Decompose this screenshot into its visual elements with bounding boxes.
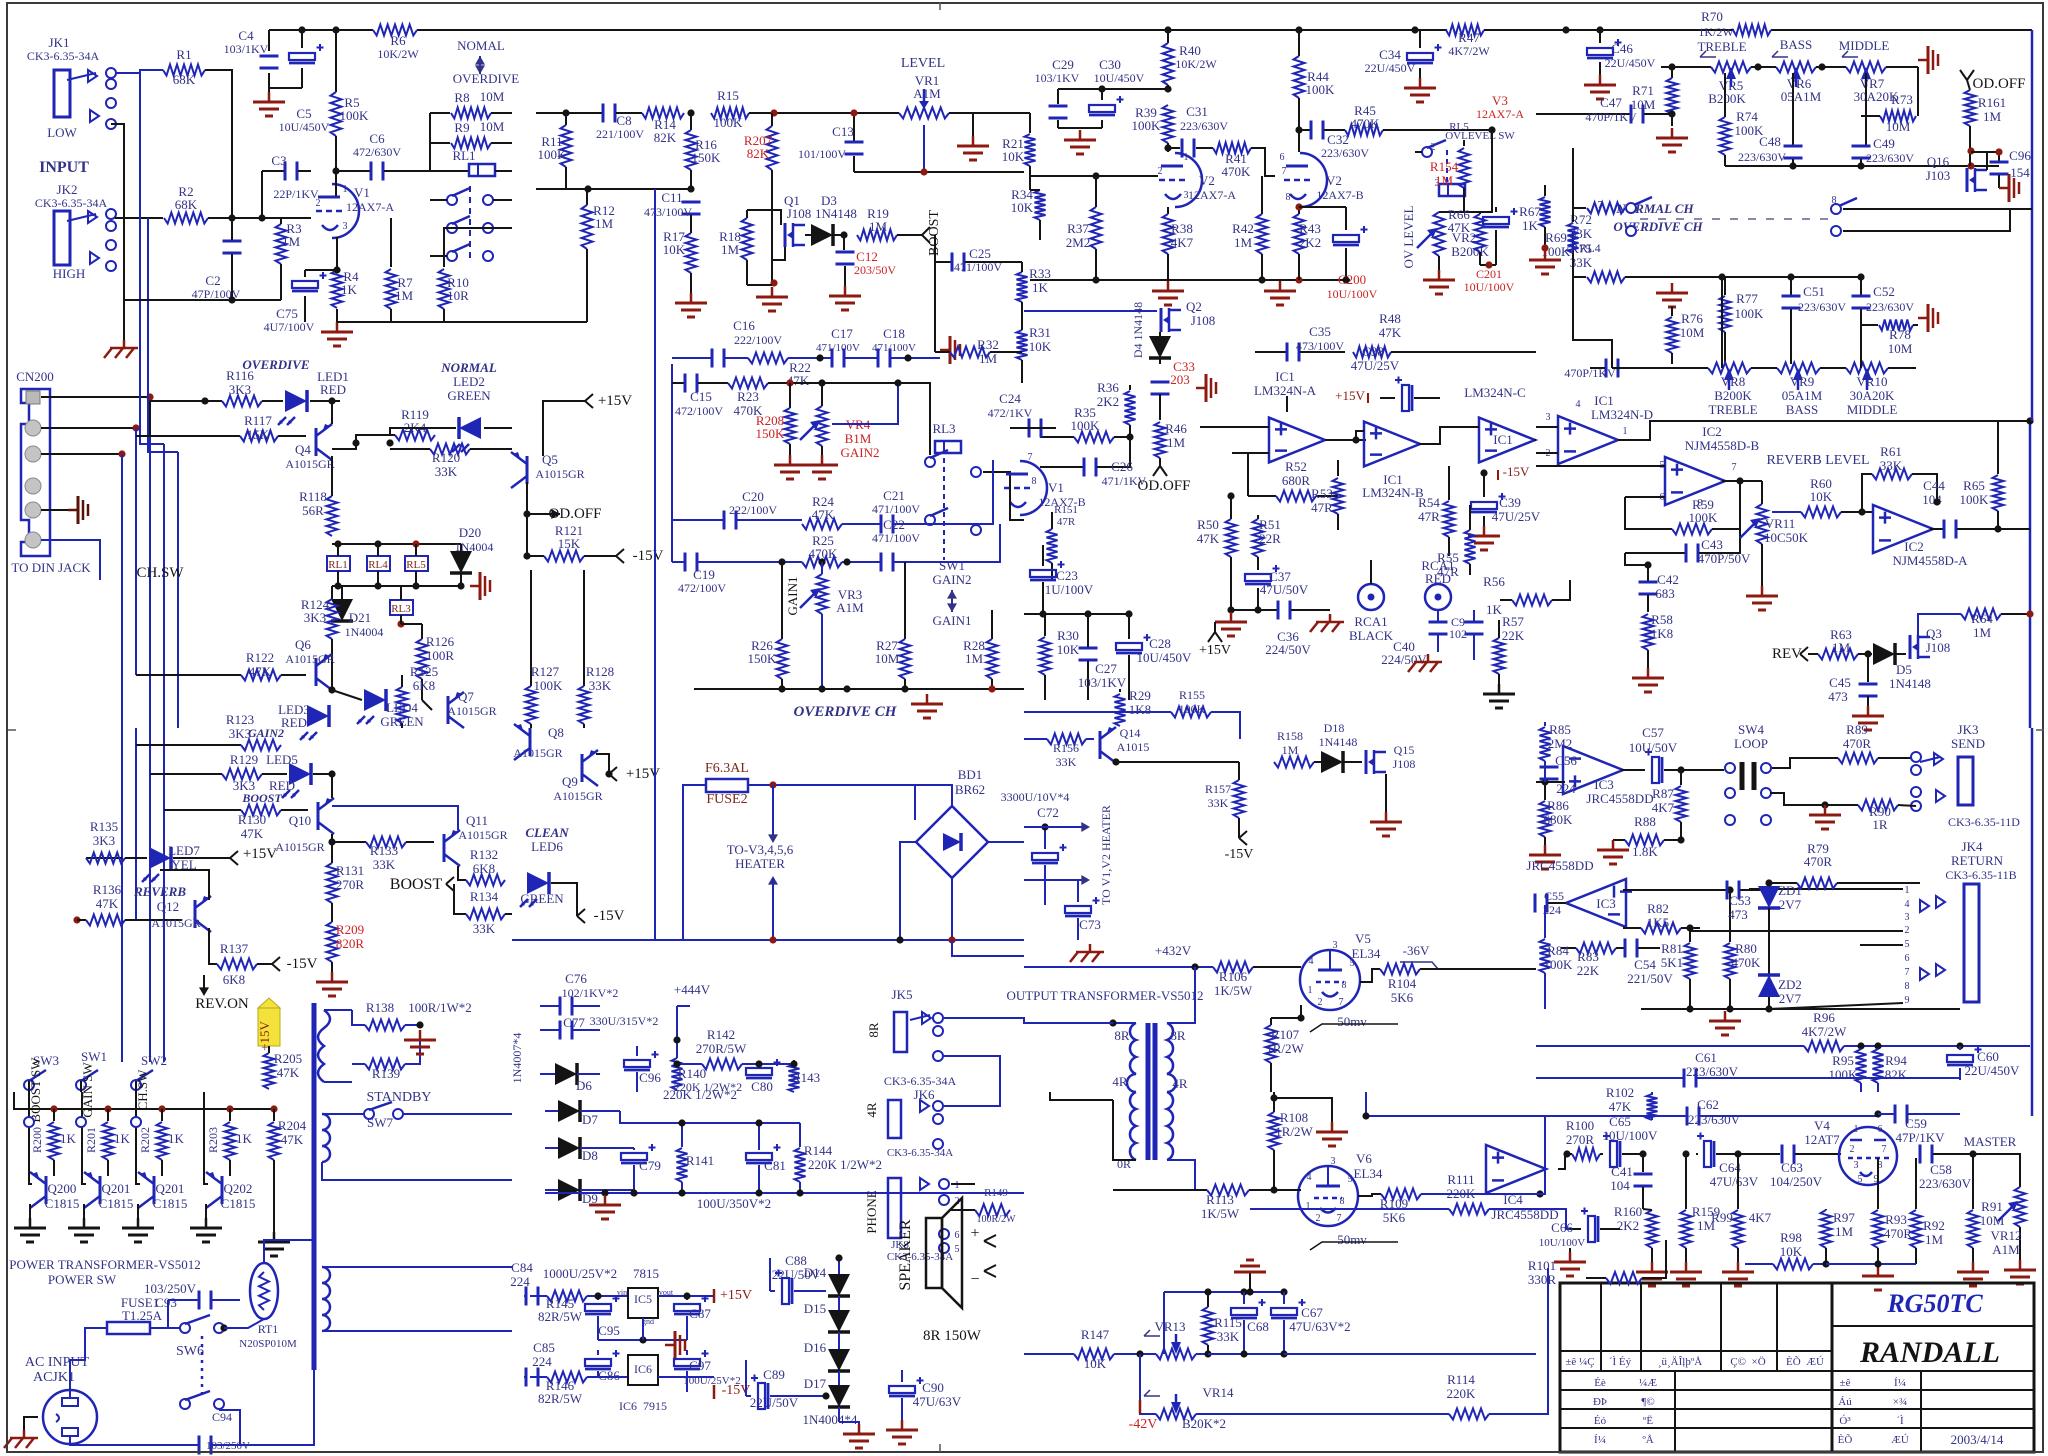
svg-text:R32: R32: [977, 337, 999, 352]
svg-text:47U/25V: 47U/25V: [1492, 509, 1541, 524]
svg-text:LM324N-B: LM324N-B: [1362, 485, 1424, 500]
svg-text:1N4148: 1N4148: [815, 206, 857, 221]
svg-text:C29: C29: [1052, 57, 1074, 72]
svg-text:R91: R91: [1981, 1199, 2003, 1214]
diode D14: [804, 1254, 850, 1296]
svg-text:470R: 470R: [1843, 736, 1872, 751]
wire B+ rail K: [1024, 966, 1213, 968]
resistor R65: [1960, 421, 2004, 529]
svg-text:C47: C47: [1600, 95, 1622, 110]
svg-text:R23: R23: [737, 389, 759, 404]
capacitor C28: [1116, 614, 1192, 700]
opamp IC1 LM324N-B: [1356, 422, 1424, 500]
chassis ground C40: [1408, 654, 1442, 672]
svg-text:C87: C87: [689, 1306, 711, 1321]
svg-text:8R: 8R: [1170, 1028, 1186, 1043]
svg-text:Q14: Q14: [1120, 726, 1141, 740]
svg-text:47U/50V: 47U/50V: [1260, 582, 1309, 597]
ground D17: [858, 1424, 861, 1434]
svg-text:47R: 47R: [1057, 516, 1076, 528]
capacitor C85 sym: [525, 1368, 528, 1387]
svg-text:POWER TRANSFORMER-VS5012: POWER TRANSFORMER-VS5012: [9, 1257, 201, 1272]
svg-text:ºÅ: ºÅ: [1642, 1434, 1653, 1446]
diode D18 1N4148: [1314, 721, 1362, 773]
wire lower tone rail: [1630, 367, 1708, 369]
transistor Q4 A1015GR: [285, 401, 334, 471]
ground VR1: [972, 136, 975, 146]
svg-text:10K: 10K: [1057, 642, 1080, 657]
svg-text:1M: 1M: [721, 242, 740, 257]
svg-text:R84: R84: [1547, 943, 1569, 958]
svg-text:CH.SW: CH.SW: [135, 1069, 150, 1111]
svg-text:C45: C45: [1829, 675, 1851, 690]
svg-text:1M: 1M: [1925, 1232, 1944, 1247]
wire rail RL boxes top: [332, 543, 461, 545]
svg-text:Éó: Éó: [1594, 1415, 1607, 1427]
junction tone bottom: [1789, 162, 1796, 169]
svg-text:Q201: Q201: [156, 1181, 185, 1196]
svg-text:GREEN: GREEN: [447, 388, 491, 403]
transistor Q6 A1015GR: [285, 637, 334, 690]
svg-text:R129: R129: [230, 752, 258, 767]
resistor R16: [686, 113, 722, 170]
wire center vert bus: [654, 189, 656, 940]
resistor R124: [301, 586, 338, 662]
svg-text:D20: D20: [459, 525, 481, 540]
junction RL3 bot: [397, 620, 404, 627]
wire IC1 out bus: [1534, 439, 1536, 441]
resistor R36: [1097, 380, 1136, 437]
svg-text:7: 7: [1028, 452, 1033, 463]
svg-text:4: 4: [1905, 899, 1910, 910]
ground R108: [1274, 1098, 1332, 1122]
junction D3 C12: [840, 231, 847, 238]
blue verticals I: [121, 728, 123, 1062]
wire bottom rail2: [337, 321, 512, 323]
svg-text:82K: 82K: [654, 130, 677, 145]
svg-text:7: 7: [1282, 166, 1287, 177]
svg-text:47R: 47R: [1418, 509, 1440, 524]
ground V1 cathode: [336, 322, 339, 332]
resistor R44: [1294, 30, 1336, 152]
svg-text:222/100V: 222/100V: [729, 503, 777, 517]
ground C90: [901, 1420, 904, 1430]
svg-text:R53: R53: [1311, 486, 1333, 501]
ground VR12: [2019, 1260, 2022, 1270]
wire lower rail L: [1641, 1008, 1960, 1010]
resistor R89: [1772, 722, 1912, 768]
svg-text:GAIN2: GAIN2: [248, 726, 284, 740]
transistor Q12 A1015GR: [151, 896, 211, 932]
ground R99: [1737, 1262, 1740, 1272]
svg-text:2: 2: [1316, 1213, 1321, 1224]
opamp IC2 NJM4558D-B: [1660, 424, 1760, 509]
svg-text:VR10: VR10: [1856, 374, 1887, 389]
svg-text:C25: C25: [969, 246, 991, 261]
resistor R85: [1540, 722, 1573, 782]
resistor R144: [795, 1123, 883, 1193]
svg-text:JK6: JK6: [914, 1087, 935, 1102]
svg-text:12AX7-A: 12AX7-A: [1476, 107, 1524, 121]
resistor R146: [538, 1372, 628, 1407]
svg-text:ÈÕ ÆÚ: ÈÕ ÆÚ: [1786, 1356, 1824, 1368]
resistor R137: [209, 928, 318, 987]
resistor R155: [1024, 688, 1240, 739]
opamp IC1 LM324N-C: [1419, 385, 1535, 462]
svg-text:CN200: CN200: [16, 369, 54, 384]
resistor R93: [1873, 1158, 1913, 1264]
svg-text:NJM4558D-A: NJM4558D-A: [1892, 553, 1968, 568]
svg-text:8: 8: [1905, 981, 1910, 992]
svg-text:100U/350V*2: 100U/350V*2: [697, 1196, 771, 1211]
svg-text:2K2: 2K2: [1097, 394, 1119, 409]
capacitor C25: [935, 235, 1022, 274]
svg-text:OUTPUT TRANSFORMER-VS5012: OUTPUT TRANSFORMER-VS5012: [1006, 988, 1203, 1003]
svg-text:R144: R144: [804, 1143, 833, 1158]
svg-text:RED: RED: [320, 382, 346, 397]
svg-text:R107: R107: [1271, 1027, 1300, 1042]
svg-text:3K3: 3K3: [93, 833, 115, 848]
svg-text:D17: D17: [804, 1376, 827, 1391]
svg-text:Q15: Q15: [1394, 743, 1415, 757]
junction pots: [1668, 63, 1675, 70]
svg-text:473: 473: [1728, 907, 1748, 922]
svg-text:100K: 100K: [1132, 118, 1162, 133]
svg-text:C65: C65: [1609, 1114, 1631, 1129]
svg-text:1M: 1M: [1832, 640, 1851, 655]
capacitor C47: [1536, 95, 1672, 124]
svg-text:RL1: RL1: [452, 148, 475, 163]
svg-text:C22: C22: [883, 517, 905, 532]
svg-text:C67: C67: [1301, 1305, 1323, 1320]
resistor R42: [1232, 176, 1267, 280]
svg-text:150K: 150K: [748, 651, 778, 666]
resistor R67: [1519, 185, 1550, 248]
title block frame: [1560, 1283, 2034, 1452]
chassis ground heater: [1070, 944, 1104, 962]
svg-text:R97: R97: [1833, 1210, 1855, 1225]
wire tone risers: [1721, 277, 1723, 368]
wire opamp D out bus: [1618, 421, 2030, 440]
svg-text:820R: 820R: [336, 936, 365, 951]
svg-text:C1815: C1815: [45, 1196, 80, 1211]
svg-text:MASTER: MASTER: [1964, 1134, 2017, 1149]
svg-text:1K/2W: 1K/2W: [1698, 25, 1734, 39]
svg-text:8R: 8R: [866, 1022, 881, 1038]
switch SW4 LOOP: [1724, 722, 1771, 825]
svg-text:RL3: RL3: [932, 421, 955, 436]
svg-text:D4 1N4148: D4 1N4148: [1131, 302, 1145, 358]
svg-text:2: 2: [1318, 997, 1323, 1008]
svg-text:4R: 4R: [1112, 1074, 1128, 1089]
svg-text:R118: R118: [299, 489, 327, 504]
wire left drop jk1: [111, 124, 124, 340]
svg-text:8R: 8R: [1114, 1028, 1130, 1043]
svg-text:Q10: Q10: [289, 813, 311, 828]
svg-text:A1015GR: A1015GR: [275, 840, 324, 854]
resistor R14: [642, 108, 684, 146]
junction wiper: [920, 168, 927, 175]
svg-text:Q2: Q2: [1186, 299, 1202, 314]
svg-text:203/50V: 203/50V: [854, 263, 896, 277]
svg-text:R78: R78: [1889, 327, 1911, 342]
svg-text:C31: C31: [1186, 104, 1208, 119]
junction R107: [1297, 1014, 1304, 1021]
pot VR3 GAIN1: [785, 558, 864, 692]
capacitor C52: [1852, 277, 1915, 364]
svg-text:Q11: Q11: [466, 813, 488, 828]
opamp IC4 JRC4558DD: [1486, 1145, 1559, 1222]
svg-text:C27: C27: [1095, 661, 1117, 676]
svg-text:5: 5: [1350, 958, 1355, 969]
svg-text:1M: 1M: [1983, 109, 2002, 124]
opamp IC1 LM324N-D: [1546, 393, 1654, 464]
capacitor C200: [1299, 207, 1378, 301]
svg-text:10K: 10K: [1029, 339, 1052, 354]
svg-text:RL1: RL1: [328, 559, 348, 571]
capacitor C5: [269, 30, 330, 134]
resistor R22: [748, 353, 831, 389]
transistor Q201b: [136, 1092, 187, 1218]
resistor R30: [1040, 614, 1080, 700]
svg-text:VR12: VR12: [1990, 1228, 2021, 1243]
led LED6 GREEN: [520, 872, 625, 924]
diode D16: [804, 1340, 850, 1371]
pot VR13: [1144, 1319, 1212, 1360]
svg-text:A1015GR: A1015GR: [553, 789, 602, 803]
svg-text:Q7: Q7: [458, 689, 474, 704]
resistor R106: [1213, 962, 1301, 999]
wire JK6 taps: [944, 1092, 1000, 1106]
wire N top rail: [620, 1111, 800, 1123]
capacitor C3: [262, 153, 319, 218]
svg-text:47P/1KV: 47P/1KV: [1895, 1130, 1945, 1145]
svg-text:BOOST: BOOST: [390, 876, 443, 893]
svg-text:ÈÕ: ÈÕ: [1838, 1434, 1853, 1446]
svg-text:220K 1/2W*2: 220K 1/2W*2: [808, 1157, 882, 1172]
svg-text:223/630V: 223/630V: [1919, 1176, 1972, 1191]
svg-text:224: 224: [1556, 781, 1576, 796]
transistor Q2 J108: [1024, 299, 1215, 332]
resistor R48: [1353, 311, 1536, 358]
svg-text:D14: D14: [804, 1265, 827, 1280]
svg-text:2M2: 2M2: [1066, 235, 1091, 250]
svg-text:1K5: 1K5: [1647, 915, 1669, 930]
svg-text:R94: R94: [1885, 1053, 1907, 1068]
svg-text:Q9: Q9: [562, 774, 578, 789]
diode D6: [540, 1063, 600, 1093]
svg-text:150K: 150K: [756, 426, 786, 441]
wire V1B grid: [940, 460, 993, 524]
resistor R127: [526, 570, 564, 728]
svg-text:R205: R205: [274, 1051, 302, 1066]
svg-text:Ç© ×Ö: Ç© ×Ö: [1730, 1356, 1765, 1368]
wire Q1 gate: [747, 210, 781, 225]
regulator IC6 7915: [619, 1355, 667, 1413]
svg-text:Q3: Q3: [1926, 626, 1942, 641]
resistor R84: [1540, 905, 1574, 1009]
svg-text:100R/2W: 100R/2W: [977, 1214, 1016, 1225]
svg-text:1K/5W: 1K/5W: [1214, 983, 1253, 998]
svg-text:LED2: LED2: [453, 374, 485, 389]
svg-text:RL5: RL5: [406, 559, 426, 571]
svg-text:C28: C28: [1149, 636, 1171, 651]
svg-text:IC1: IC1: [1275, 369, 1295, 384]
resistor R72: [1570, 148, 1625, 241]
svg-text:R151: R151: [1054, 504, 1078, 516]
svg-text:33K: 33K: [435, 464, 458, 479]
svg-text:2V7: 2V7: [1779, 897, 1802, 912]
svg-text:100K: 100K: [1544, 957, 1574, 972]
svg-text:R77: R77: [1736, 291, 1758, 306]
svg-text:IC3: IC3: [1596, 896, 1616, 911]
svg-text:2M2: 2M2: [1548, 736, 1573, 751]
pot VR2 OV LEVEL: [1401, 205, 1489, 270]
junction rail C: [1164, 26, 1171, 33]
svg-text:6K8: 6K8: [413, 678, 435, 693]
svg-text:154: 154: [2010, 165, 2030, 180]
svg-text:IC5: IC5: [634, 1292, 652, 1306]
svg-text:R99: R99: [1711, 1210, 1733, 1225]
resistor R126: [401, 624, 455, 700]
junction C201: [1485, 261, 1492, 268]
junction R11 top: [562, 109, 569, 116]
resistor R76: [1667, 306, 1705, 364]
junction R23 R208: [786, 379, 793, 386]
junction R65 bot: [1994, 525, 2001, 532]
wire VR13 right: [1208, 1353, 1284, 1355]
ground R50: [1230, 612, 1233, 622]
capacitor C22: [872, 517, 940, 572]
resistor R12: [582, 189, 615, 322]
svg-text:Q200: Q200: [48, 1181, 77, 1196]
svg-text:10K: 10K: [1002, 149, 1025, 164]
capacitor C55: [1535, 889, 1566, 917]
svg-text:Q4: Q4: [295, 442, 311, 457]
ground R71: [1671, 128, 1674, 138]
wire mid rail B: [536, 112, 602, 114]
svg-text:C49: C49: [1873, 136, 1895, 151]
svg-text:33K: 33K: [1056, 755, 1077, 769]
svg-text:5K6: 5K6: [1391, 990, 1414, 1005]
svg-text:C12: C12: [856, 249, 878, 264]
svg-text:1M: 1M: [1282, 743, 1299, 757]
svg-text:3: 3: [1331, 1156, 1336, 1167]
svg-text:C59: C59: [1905, 1116, 1927, 1131]
svg-text:6: 6: [955, 1230, 960, 1241]
wire JK4 pins: [1749, 888, 1903, 890]
svg-text:R111: R111: [1447, 1172, 1474, 1187]
svg-text:100K: 100K: [1960, 492, 1990, 507]
resistor R135: [86, 819, 147, 864]
ground R209: [331, 972, 334, 982]
svg-text:1.8K: 1.8K: [1632, 844, 1658, 859]
svg-text:7: 7: [1598, 200, 1603, 211]
svg-text:F6.3AL: F6.3AL: [705, 761, 749, 776]
svg-text:R154: R154: [1430, 159, 1459, 174]
svg-text:56R: 56R: [302, 503, 324, 518]
switch SW1b: [76, 1049, 107, 1118]
switch RL1 contacts: [430, 186, 512, 262]
svg-text:C20: C20: [742, 489, 764, 504]
transistor Q201: [82, 1092, 133, 1218]
svg-text:3: 3: [1905, 912, 1910, 923]
resistor R31: [1017, 322, 1052, 383]
junction R4 C75: [333, 266, 340, 273]
transformer output bottom: [1113, 1092, 1195, 1190]
svg-text:3: 3: [1854, 1160, 1859, 1171]
capacitor C39: [1471, 473, 1541, 526]
svg-text:100K: 100K: [538, 147, 568, 162]
junction rail D: [1562, 26, 1569, 33]
resistor R9: [430, 119, 512, 149]
svg-text:05A1M: 05A1M: [1781, 89, 1822, 104]
junction R71 C47: [1668, 110, 1675, 117]
svg-text:C200: C200: [1338, 272, 1366, 287]
svg-text:R123: R123: [226, 712, 254, 727]
svg-text:SW2: SW2: [141, 1053, 167, 1068]
svg-text:V2: V2: [1326, 173, 1342, 188]
svg-text:472/100V: 472/100V: [675, 404, 723, 418]
svg-text:Q8: Q8: [548, 725, 564, 740]
svg-text:270R: 270R: [336, 877, 365, 892]
ground VR4: [821, 455, 824, 465]
svg-text:203: 203: [1170, 372, 1190, 387]
svg-text:R46: R46: [1165, 421, 1187, 436]
pot VR9 BASS: [1777, 363, 1823, 418]
resistor R87: [1652, 770, 1687, 840]
svg-text:C6: C6: [369, 131, 385, 146]
svg-text:220K: 220K: [1447, 1186, 1477, 1201]
resistor R53: [1311, 460, 1343, 530]
svg-text:10M: 10M: [480, 119, 505, 134]
svg-text:C201: C201: [1476, 267, 1502, 281]
svg-text:101/100V: 101/100V: [798, 147, 846, 161]
label BOOST arrow: [922, 210, 942, 256]
svg-text:D18: D18: [1324, 721, 1345, 735]
resistor R35: [1040, 405, 1130, 443]
svg-text:+15V: +15V: [720, 1288, 752, 1303]
svg-text:22R: 22R: [1259, 531, 1281, 546]
svg-text:R88: R88: [1634, 814, 1656, 829]
resistor R70: [1698, 9, 1771, 39]
svg-text:´Ì: ´Ì: [1896, 1415, 1904, 1427]
resistor R57: [1494, 614, 1525, 684]
junction bus H: [2026, 417, 2033, 424]
svg-text:7: 7: [1339, 997, 1344, 1008]
resistor R34: [1011, 187, 1046, 240]
transistor Q10 A1015GR: [275, 774, 334, 854]
svg-text:R161: R161: [1978, 95, 2006, 110]
capacitor C36: [1265, 601, 1330, 658]
svg-text:R58: R58: [1651, 612, 1673, 627]
zener ZD1 2V7: [1758, 879, 1802, 975]
svg-text:3K3: 3K3: [304, 610, 326, 625]
capacitor C96b: [624, 1046, 661, 1092]
resistor R38: [1163, 207, 1194, 280]
capacitor C44: [1922, 478, 2030, 539]
svg-text:R80: R80: [1735, 941, 1757, 956]
svg-text:RED: RED: [1425, 571, 1451, 586]
wire R18 bot: [747, 284, 772, 286]
svg-text:C63: C63: [1781, 1160, 1803, 1175]
svg-text:33K: 33K: [373, 857, 396, 872]
svg-text:+: +: [970, 1225, 979, 1242]
svg-text:103/1KV: 103/1KV: [1035, 71, 1080, 85]
svg-text:B20K*2: B20K*2: [1182, 1416, 1226, 1431]
svg-text:R37: R37: [1067, 221, 1089, 236]
svg-text:J103: J103: [1926, 168, 1951, 183]
